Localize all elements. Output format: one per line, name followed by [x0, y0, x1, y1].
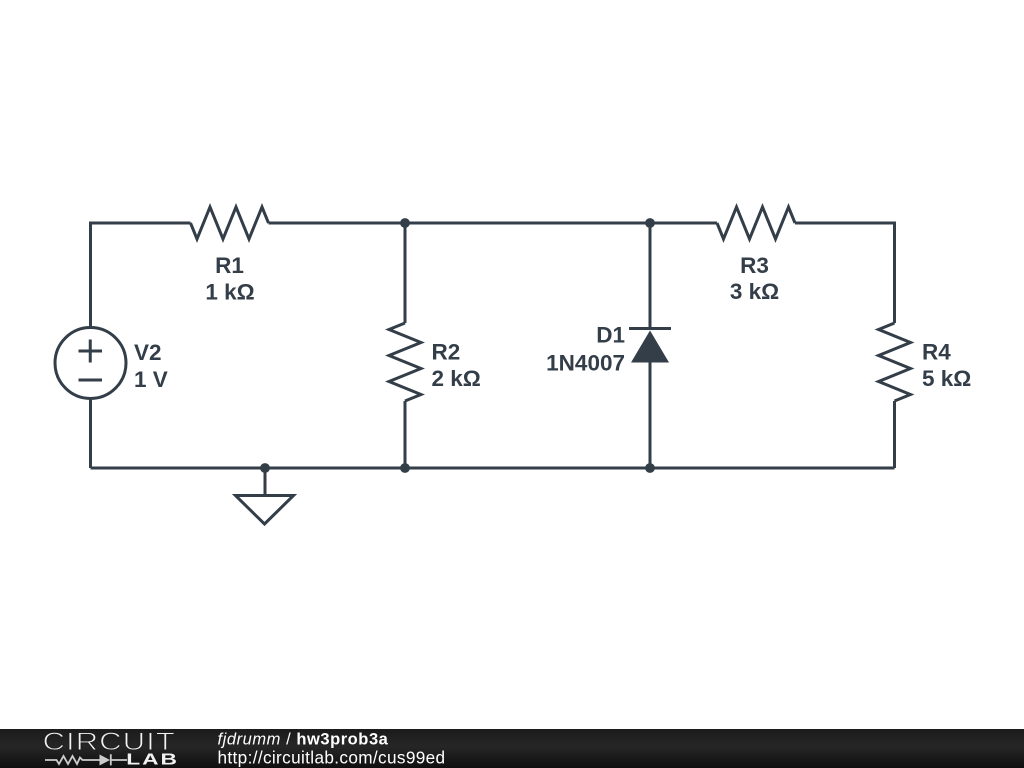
- logo diode bar: [111, 754, 127, 765]
- ground junction dot: [260, 463, 270, 473]
- node B junction dot: [400, 218, 410, 228]
- svg-text:3 kΩ: 3 kΩ: [730, 279, 779, 304]
- bottom rail wire: [91, 467, 895, 470]
- svg-text:1N4007: 1N4007: [546, 351, 625, 376]
- resistor R4: [879, 323, 911, 401]
- svg-text:D1: D1: [596, 323, 625, 348]
- svg-text:http://circuitlab.com/cus99ed: http://circuitlab.com/cus99ed: [218, 747, 446, 767]
- svg-text:R2: R2: [432, 340, 461, 365]
- svg-text:5 kΩ: 5 kΩ: [922, 366, 971, 391]
- resistor R2: [389, 323, 421, 401]
- diode D1 cathode bar: [629, 327, 671, 330]
- V2 plus sign: [79, 340, 103, 363]
- svg-text:R1: R1: [215, 253, 244, 278]
- resistor R3: [717, 207, 795, 239]
- wire top-left from corner to R1: [91, 223, 191, 328]
- svg-text:1 V: 1 V: [134, 367, 168, 392]
- svg-text:R4: R4: [922, 340, 951, 365]
- wire node C down to D1: [649, 223, 652, 330]
- ground symbol: [236, 496, 294, 525]
- wire R3 to top-right corner down to R4: [795, 223, 895, 323]
- wire R4 bottom to bottom-right corner: [893, 401, 896, 468]
- diode D1 triangle: [631, 331, 669, 363]
- wire V2 bottom to bottom rail: [89, 399, 92, 469]
- svg-text:LAB: LAB: [126, 751, 179, 768]
- D1 bottom junction dot: [645, 463, 655, 473]
- logo CIRCUIT: [43, 727, 176, 755]
- wire top node C to R3: [650, 222, 717, 225]
- node C junction dot: [645, 218, 655, 228]
- logo LAB: [126, 751, 179, 768]
- wire D1 bottom: [649, 363, 652, 469]
- logo wire squiggle resistor: [45, 756, 100, 764]
- wire top middle R1 to node B: [269, 222, 406, 225]
- svg-text:V2: V2: [134, 340, 162, 365]
- svg-text:R3: R3: [740, 253, 769, 278]
- wire R2 bottom: [404, 401, 407, 468]
- resistor R1: [191, 207, 269, 239]
- voltage source V2: [55, 328, 126, 399]
- svg-text:fjdrumm / hw3prob3a: fjdrumm / hw3prob3a: [218, 731, 389, 749]
- svg-text:1 kΩ: 1 kΩ: [205, 280, 254, 305]
- wire node B down to R2: [404, 223, 407, 323]
- svg-text:2 kΩ: 2 kΩ: [432, 366, 481, 391]
- R2 bottom junction dot: [400, 463, 410, 473]
- V2 minus sign: [79, 379, 103, 382]
- ground stub: [264, 468, 267, 496]
- logo diode triangle: [100, 755, 111, 766]
- wire top node B to node C: [405, 222, 650, 225]
